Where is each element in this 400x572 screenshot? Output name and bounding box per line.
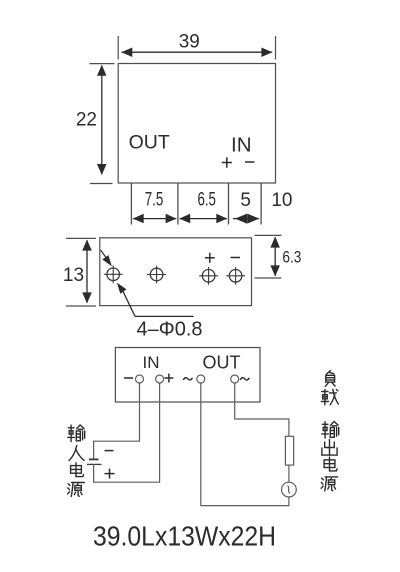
dim 39 line with arrows xyxy=(121,48,272,58)
battery B1 long plate (plus) xyxy=(87,463,102,465)
mounting hole 4 (pin hole) xyxy=(226,267,245,285)
mounting hole 2 (pin hole) xyxy=(147,266,166,284)
pin 4 xyxy=(260,183,262,225)
dim 6.3 extension line bottom xyxy=(255,277,282,279)
wire terminal 4 to resistor top xyxy=(235,383,289,436)
wire terminal 3 to lamp bottom xyxy=(201,383,289,506)
minus mark above hole 4 xyxy=(231,257,241,259)
terminal 4 circle xyxy=(231,375,239,383)
svg-text:5: 5 xyxy=(240,190,251,211)
plus mark right of terminal 2 xyxy=(164,374,173,383)
plus mark above hole 3 xyxy=(205,253,215,263)
minus terminal mark (top view) xyxy=(245,161,254,163)
mounting hole 3 (pin hole) xyxy=(199,267,218,285)
dim 13 extension line top xyxy=(66,237,96,239)
tilde mark left of terminal 3 xyxy=(183,378,192,380)
dim 22 extension line top xyxy=(90,63,115,65)
dim 22 line with arrows xyxy=(97,65,107,175)
svg-text:7.5: 7.5 xyxy=(145,190,164,211)
svg-text:OUT: OUT xyxy=(203,352,241,372)
pin 2 xyxy=(177,183,179,225)
leader arrow into hole 1 from top xyxy=(101,250,112,266)
svg-text:6.3: 6.3 xyxy=(282,247,301,266)
mounting hole 1 (pin hole) xyxy=(104,265,123,283)
bottom view outline xyxy=(100,238,252,306)
pin 1 xyxy=(130,183,132,225)
module body outline (top view) xyxy=(118,64,275,184)
lamp (load indicator) xyxy=(282,482,297,497)
wire terminal1 to battery minus xyxy=(94,383,140,459)
dim 13 line with arrows xyxy=(82,240,92,304)
svg-text:13: 13 xyxy=(63,265,84,286)
svg-text:OUT: OUT xyxy=(129,131,170,153)
terminal 2 circle xyxy=(156,375,164,383)
svg-text:6.5: 6.5 xyxy=(197,190,216,211)
dim 5 arrows (diamond) xyxy=(233,214,259,224)
dim 22 extension line bottom xyxy=(90,183,113,185)
battery B1 short plate (minus) xyxy=(89,458,99,460)
plus terminal mark (top view) xyxy=(222,157,232,167)
dim 6.3 line with arrows xyxy=(270,237,280,277)
svg-text:IN: IN xyxy=(143,353,160,372)
terminal box xyxy=(115,348,260,403)
label: input power (Chinese, vertical) xyxy=(68,425,85,497)
dim 13 extension line bottom xyxy=(66,305,96,307)
terminal 3 circle xyxy=(197,375,205,383)
label: output power (Chinese, vertical) xyxy=(321,422,339,491)
dim 7.5 arrows xyxy=(133,214,177,224)
svg-text:39.0Lx13Wx22H: 39.0Lx13Wx22H xyxy=(93,521,276,552)
svg-text:22: 22 xyxy=(76,110,97,131)
wire resistor to lamp xyxy=(288,465,290,482)
battery plus label xyxy=(105,469,115,479)
tilde mark right of terminal 4 xyxy=(240,378,249,380)
dim 6.3 extension line top xyxy=(255,234,282,236)
dim 6.5 arrows xyxy=(179,214,227,224)
dim 39 extension line left xyxy=(117,36,119,60)
leader line 4-Phi0.8 with arrow xyxy=(117,283,194,317)
wire battery plus to terminal 2 xyxy=(94,383,160,482)
terminal 1 circle xyxy=(136,375,144,383)
dim 39 extension line right xyxy=(275,36,277,60)
load resistor xyxy=(285,436,293,465)
pin 3 xyxy=(228,183,230,225)
svg-text:IN: IN xyxy=(231,133,252,156)
battery minus label xyxy=(105,450,114,452)
svg-text:39: 39 xyxy=(179,32,200,53)
minus mark left of terminal 1 xyxy=(124,377,133,379)
svg-text:4–Φ0.8: 4–Φ0.8 xyxy=(137,318,203,340)
label: load (Chinese, vertical) xyxy=(321,371,338,405)
svg-text:10: 10 xyxy=(271,190,292,211)
